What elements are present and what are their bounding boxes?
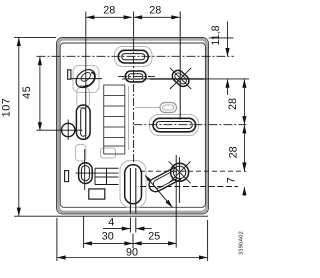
svg-text:107: 107 [1, 98, 13, 118]
svg-text:90: 90 [126, 246, 138, 258]
svg-text:11,8: 11,8 [210, 25, 222, 45]
svg-text:28: 28 [227, 98, 239, 110]
svg-text:28: 28 [149, 4, 161, 16]
svg-text:7: 7 [226, 177, 238, 183]
svg-text:30: 30 [102, 231, 114, 243]
svg-text:3390A02: 3390A02 [239, 231, 245, 255]
svg-text:4: 4 [108, 217, 114, 229]
svg-text:25: 25 [148, 231, 160, 243]
svg-text:28: 28 [103, 4, 115, 16]
svg-text:28: 28 [227, 146, 239, 158]
svg-text:45: 45 [21, 86, 33, 99]
